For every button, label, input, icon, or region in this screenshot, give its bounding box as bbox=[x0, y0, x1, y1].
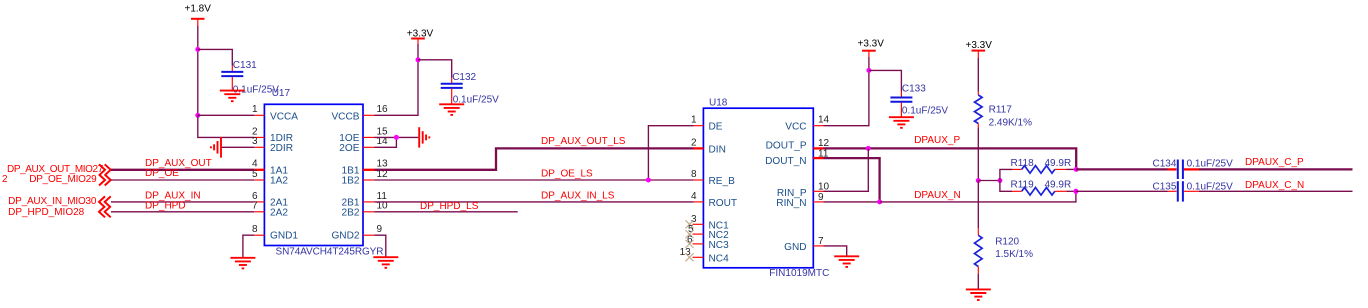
U17 pin 3 2DIR bbox=[252, 136, 293, 154]
svg-text:VCCB: VCCB bbox=[331, 111, 359, 122]
svg-text:2A2: 2A2 bbox=[270, 207, 288, 218]
wire bias node to R120 bbox=[977, 181, 979, 229]
node junction DE/RE_B bbox=[646, 178, 651, 183]
wire DPAUX_C_N bbox=[1199, 190, 1353, 192]
capacitor C132 bbox=[441, 72, 499, 105]
node junction DOUT_P to RIN_P bbox=[866, 146, 871, 151]
U17 pin 10 2B2 bbox=[342, 201, 389, 219]
U17 pin 12 1B2 bbox=[342, 169, 389, 187]
svg-text:8: 8 bbox=[252, 224, 258, 235]
svg-text:1: 1 bbox=[252, 104, 258, 115]
svg-text:U17: U17 bbox=[272, 88, 291, 99]
U18 pin 7 GND bbox=[784, 236, 824, 253]
svg-text:2.49K/1%: 2.49K/1% bbox=[989, 118, 1032, 129]
node junction DPAUX_P / R118 / C134 bbox=[1074, 167, 1079, 172]
wire DP_AUX_OUT bbox=[111, 169, 254, 171]
wire VCC rail bbox=[824, 57, 869, 126]
wire DP_AUX_IN_LS bbox=[375, 201, 694, 203]
svg-text:R117: R117 bbox=[989, 105, 1013, 116]
svg-text:DP_OE: DP_OE bbox=[145, 168, 179, 179]
U17 pin 14 2OE bbox=[339, 136, 388, 154]
svg-text:DP_OE_LS: DP_OE_LS bbox=[541, 169, 593, 180]
wire bias link bbox=[978, 180, 1000, 182]
power +3.3V (VCCB) bbox=[407, 28, 434, 44]
node junction 1OE/2OE bbox=[394, 135, 399, 140]
wire DPAUX_C_P bbox=[1199, 168, 1353, 170]
off-page connector DP_OE_MIO29 bbox=[2, 174, 111, 185]
capacitor C135 bbox=[1152, 181, 1233, 201]
svg-text:C132: C132 bbox=[452, 72, 476, 83]
U17 pin 8 GND1 bbox=[252, 224, 298, 242]
svg-text:DPAUX_P: DPAUX_P bbox=[914, 135, 960, 146]
svg-text:8: 8 bbox=[691, 169, 697, 180]
svg-text:DPAUX_N: DPAUX_N bbox=[914, 190, 961, 201]
U17 pin 15 1OE bbox=[339, 126, 388, 144]
U17 pin 5 1A2 bbox=[252, 169, 288, 187]
ground below C131 bbox=[220, 91, 245, 102]
capacitor C134 bbox=[1152, 158, 1233, 179]
op-amp U17 box bbox=[264, 88, 383, 257]
svg-text:49.9R: 49.9R bbox=[1045, 158, 1072, 169]
U17 pin 11 2B1 bbox=[342, 191, 388, 209]
off-page connector DP_AUX_IN_MIO30 bbox=[8, 196, 111, 207]
wire DPAUX_N bbox=[880, 191, 1076, 202]
svg-text:R120: R120 bbox=[995, 237, 1019, 248]
svg-text:4: 4 bbox=[691, 191, 697, 202]
wire +3.3V to R117 bbox=[977, 58, 979, 92]
U17 pin 4 1A1 bbox=[252, 159, 288, 177]
U17 pin 1 VCCA bbox=[252, 104, 298, 122]
wire RIN_P loopback bbox=[824, 148, 869, 191]
U17 pin 6 2A1 bbox=[252, 191, 288, 209]
resistor R118 bbox=[1011, 158, 1072, 173]
svg-text:1: 1 bbox=[691, 115, 697, 126]
svg-text:NC3: NC3 bbox=[709, 240, 730, 251]
svg-text:49.9R: 49.9R bbox=[1045, 179, 1072, 190]
ground (right-facing) at 1OE/2OE bbox=[419, 127, 429, 147]
wire R117 to bias node bbox=[977, 127, 979, 180]
U18 pin 13 NC4 bbox=[680, 247, 730, 264]
wire DOUT_P / DPAUX_P bbox=[824, 148, 1077, 169]
off-page connector DP_HPD_MIO28 bbox=[8, 206, 111, 218]
node junction bias right bbox=[997, 178, 1002, 183]
svg-text:+3.3V: +3.3V bbox=[858, 38, 885, 49]
U17 pin 16 VCCB bbox=[331, 104, 388, 122]
wire 2DIR to ground bbox=[222, 146, 255, 148]
svg-text:14: 14 bbox=[818, 115, 830, 126]
ground (left-facing) at 2DIR bbox=[211, 137, 221, 158]
svg-text:1.5K/1%: 1.5K/1% bbox=[995, 249, 1033, 260]
wire RIN_N bbox=[824, 201, 880, 203]
capacitor C133 bbox=[890, 84, 948, 118]
wire DP_HPD bbox=[111, 211, 254, 213]
wire GND1 bbox=[243, 235, 254, 257]
U17 pin 9 GND2 bbox=[331, 224, 382, 242]
svg-text:C131: C131 bbox=[233, 60, 257, 71]
power +1.8V bbox=[185, 3, 212, 26]
wire to U17 pin 2 (1DIR) bbox=[198, 115, 255, 137]
U18 pin 9 RIN_N bbox=[776, 192, 824, 209]
node junction +3.3V to C133 bbox=[866, 68, 871, 73]
svg-text:2: 2 bbox=[2, 174, 8, 185]
svg-text:DP_AUX_IN_MIO30: DP_AUX_IN_MIO30 bbox=[8, 196, 97, 207]
ground below C132 bbox=[439, 104, 464, 115]
svg-text:ROUT: ROUT bbox=[709, 198, 738, 209]
wire bias to R119 bbox=[1000, 181, 1012, 192]
svg-text:DP_AUX_OUT_MIO27: DP_AUX_OUT_MIO27 bbox=[7, 164, 104, 175]
wire C131 branch bbox=[198, 49, 233, 65]
U18 pin 4 ROUT bbox=[691, 191, 737, 209]
svg-text:NC4: NC4 bbox=[709, 253, 730, 264]
wire DP_AUX_OUT_LS bbox=[375, 148, 694, 169]
wire C133 branch bbox=[869, 70, 902, 91]
wire 1OE bbox=[375, 136, 419, 138]
wire C134 left bbox=[1076, 168, 1167, 170]
svg-text:2OE: 2OE bbox=[339, 143, 359, 154]
capacitor C131 bbox=[221, 60, 279, 96]
wire C132 branch bbox=[418, 60, 452, 78]
svg-text:FIN1019MTC: FIN1019MTC bbox=[769, 268, 829, 279]
svg-text:DP_AUX_OUT_LS: DP_AUX_OUT_LS bbox=[541, 136, 626, 147]
svg-text:GND: GND bbox=[784, 242, 806, 253]
svg-text:DOUT_N: DOUT_N bbox=[765, 156, 807, 167]
svg-text:VCC: VCC bbox=[785, 122, 806, 133]
wire DP_OE bbox=[111, 179, 254, 181]
wire R120 to ground bbox=[977, 274, 979, 290]
svg-text:DPAUX_C_P: DPAUX_C_P bbox=[1245, 157, 1304, 168]
svg-text:GND1: GND1 bbox=[270, 231, 298, 242]
svg-text:0.1uF/25V: 0.1uF/25V bbox=[902, 106, 948, 117]
U18 pin 1 DE bbox=[691, 115, 723, 133]
wire DE riser bbox=[648, 126, 693, 180]
U17 pin 2 1DIR bbox=[252, 126, 293, 144]
svg-text:DP_OE_MIO29: DP_OE_MIO29 bbox=[29, 174, 97, 185]
svg-text:0.1uF/25V: 0.1uF/25V bbox=[1187, 158, 1233, 169]
svg-text:RIN_N: RIN_N bbox=[776, 198, 806, 209]
svg-text:2: 2 bbox=[691, 137, 697, 148]
svg-text:+3.3V: +3.3V bbox=[966, 40, 993, 51]
node junction +1.8V to C131 bbox=[195, 47, 200, 52]
svg-text:DP_AUX_IN_LS: DP_AUX_IN_LS bbox=[541, 191, 615, 202]
wire DP_AUX_IN bbox=[111, 201, 254, 203]
U18 pin 10 RIN_P bbox=[777, 182, 830, 199]
wire bias to R118 bbox=[1000, 169, 1012, 180]
svg-text:RE_B: RE_B bbox=[709, 176, 736, 187]
svg-text:DPAUX_C_N: DPAUX_C_N bbox=[1245, 180, 1304, 191]
svg-text:2B2: 2B2 bbox=[342, 207, 360, 218]
U18 pin 14 VCC bbox=[785, 115, 829, 133]
node junction bias left bbox=[976, 178, 981, 183]
svg-text:3: 3 bbox=[252, 136, 258, 147]
node junction VCCA row bbox=[195, 113, 200, 118]
off-page connector DP_AUX_OUT_MIO27 bbox=[7, 164, 111, 176]
power +3.3V (R117) bbox=[966, 40, 993, 58]
wire U18 GND bbox=[824, 246, 847, 256]
svg-text:DP_HPD_MIO28: DP_HPD_MIO28 bbox=[8, 207, 85, 218]
svg-text:GND2: GND2 bbox=[331, 231, 359, 242]
node junction DOUT_N to RIN_N bbox=[877, 199, 882, 204]
node junction +3.3V to C132 bbox=[416, 57, 421, 62]
svg-text:R119: R119 bbox=[1011, 179, 1035, 190]
U18 pin 3 NC1 bbox=[686, 214, 730, 231]
ground below GND2 bbox=[373, 257, 398, 268]
wire VCCB rail bbox=[375, 44, 419, 115]
svg-text:7: 7 bbox=[818, 236, 824, 247]
svg-text:16: 16 bbox=[377, 104, 389, 115]
svg-text:DP_HPD_LS: DP_HPD_LS bbox=[420, 201, 479, 212]
ground below GND1 bbox=[230, 258, 255, 269]
wire R118 to node bbox=[1067, 168, 1077, 170]
ground below R120 bbox=[966, 289, 991, 300]
wire DP_OE_LS bbox=[375, 179, 694, 181]
U18 pin 6 NC3 bbox=[686, 234, 730, 251]
op-amp U18 box bbox=[703, 97, 829, 279]
ground below C133 bbox=[889, 117, 914, 128]
svg-text:C134: C134 bbox=[1152, 158, 1176, 169]
svg-text:9: 9 bbox=[818, 192, 824, 203]
svg-text:DP_HPD: DP_HPD bbox=[145, 201, 186, 212]
svg-text:9: 9 bbox=[377, 224, 383, 235]
wire GND2 bbox=[375, 235, 386, 257]
wire to U17 pin 1 bbox=[198, 114, 255, 116]
wire DOUT_N riser bbox=[824, 158, 880, 202]
node junction DPAUX_N / R119 / C135 bbox=[1073, 189, 1078, 194]
svg-text:1A2: 1A2 bbox=[270, 176, 288, 187]
svg-text:C133: C133 bbox=[902, 84, 926, 95]
wire DP_HPD_LS stub bbox=[375, 211, 518, 213]
ground below U18 GND bbox=[834, 256, 859, 267]
svg-text:DOUT_P: DOUT_P bbox=[766, 141, 807, 152]
svg-text:U18: U18 bbox=[709, 97, 728, 108]
svg-text:VCCA: VCCA bbox=[270, 111, 298, 122]
wire C135 left bbox=[1076, 190, 1168, 192]
U18 pin 8 RE_B bbox=[691, 169, 735, 187]
U17 pin 13 1B1 bbox=[342, 159, 389, 177]
U17 pin 7 2A2 bbox=[252, 201, 288, 219]
U18 pin 11 DOUT_N bbox=[765, 148, 829, 167]
resistor R119 bbox=[1011, 179, 1072, 195]
U18 pin 5 NC2 bbox=[686, 224, 730, 241]
U18 pin 12 DOUT_P bbox=[766, 138, 830, 152]
svg-text:1B2: 1B2 bbox=[342, 176, 360, 187]
svg-text:SN74AVCH4T245RGYR: SN74AVCH4T245RGYR bbox=[276, 246, 384, 257]
wire R119 to node bbox=[1067, 190, 1076, 192]
svg-text:DE: DE bbox=[709, 122, 723, 133]
wire +1.8V rail vertical bbox=[197, 26, 199, 115]
svg-text:DIN: DIN bbox=[709, 144, 726, 155]
resistor R120 bbox=[975, 228, 1034, 274]
resistor R117 bbox=[975, 92, 1033, 129]
svg-text:R118: R118 bbox=[1011, 158, 1035, 169]
U18 pin 2 DIN bbox=[691, 137, 726, 155]
power +3.3V (U18 VCC / C133) bbox=[858, 38, 885, 57]
svg-text:2DIR: 2DIR bbox=[270, 143, 293, 154]
svg-text:+1.8V: +1.8V bbox=[185, 3, 212, 14]
wire 2OE riser bbox=[375, 137, 397, 147]
